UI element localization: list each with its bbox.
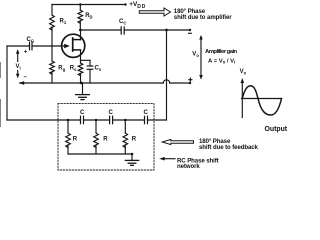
svg-text:A = Vo / Vi: A = Vo / Vi <box>208 58 235 64</box>
svg-text:R1: R1 <box>60 19 67 26</box>
svg-text:Output: Output <box>265 126 288 133</box>
svg-text:C: C <box>144 110 149 116</box>
svg-text:shift due to feedback: shift due to feedback <box>199 144 259 151</box>
svg-text:Rs: Rs <box>70 65 77 72</box>
svg-text:R: R <box>132 137 137 143</box>
svg-text:C: C <box>80 110 85 116</box>
svg-text:R: R <box>73 137 78 143</box>
svg-text:Vi: Vi <box>16 64 21 71</box>
svg-text:CG: CG <box>27 37 35 44</box>
svg-text:network: network <box>177 163 200 170</box>
svg-text:RD: RD <box>85 13 92 20</box>
svg-text:CC: CC <box>119 19 126 26</box>
svg-text:C: C <box>109 110 114 116</box>
svg-text:Vo: Vo <box>192 52 199 59</box>
svg-text:Rg: Rg <box>58 65 65 72</box>
svg-text:+: + <box>24 50 28 56</box>
svg-text:Vo: Vo <box>240 69 247 76</box>
svg-text:shift due to amplifier: shift due to amplifier <box>174 14 232 21</box>
svg-text:Amplifier gain: Amplifier gain <box>205 49 238 55</box>
svg-text:Cs: Cs <box>95 65 102 72</box>
svg-text:R: R <box>103 137 108 143</box>
